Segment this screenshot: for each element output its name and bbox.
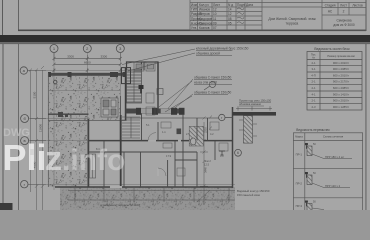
svg-text:Козлов: Козлов (199, 26, 210, 30)
svg-text:600 х 2085 h: 600 х 2085 h (333, 86, 350, 90)
small box symbol (157, 89, 163, 95)
svg-text:2: 2 (343, 10, 345, 14)
svg-text:Листов: Листов (352, 3, 363, 7)
svg-text:14: 14 (228, 8, 232, 12)
svg-text:2-1: 2-1 (311, 86, 315, 90)
sheet 1 right frame line (366, 0, 367, 31)
terrace right wall (125, 68, 127, 120)
svg-text:ПР-1: ПР-1 (296, 153, 303, 157)
svg-text:1-1: 1-1 (162, 130, 166, 134)
svg-text:900 х 2170 h: 900 х 2170 h (333, 80, 350, 84)
axis circle D (21, 181, 28, 188)
stairs arrow line (133, 71, 135, 102)
bottom note text (237, 189, 270, 197)
svg-text:терраса: терраса (286, 22, 299, 26)
svg-text:900 х 1410 h: 900 х 1410 h (333, 92, 350, 96)
svg-text:900 х 1285 h: 900 х 1285 h (333, 105, 350, 109)
interior partitions (89, 114, 216, 188)
mid-plan circle label (221, 116, 223, 120)
wall ledge line under terrace (48, 120, 127, 122)
axis circle A (20, 67, 27, 74)
svg-text:17.9: 17.9 (166, 154, 172, 158)
svg-text:10: 10 (213, 12, 217, 16)
svg-text:07: 07 (213, 26, 217, 30)
svg-text:12: 12 (213, 8, 217, 12)
svg-text:ГИП: ГИП (191, 8, 198, 12)
lintel row 2 (305, 172, 350, 188)
svg-text:дом из Ф 3000: дом из Ф 3000 (333, 23, 354, 27)
top total dimension line (53, 63, 122, 66)
dark stove box (177, 129, 182, 135)
svg-text:z: z (45, 140, 62, 178)
right wall detail label (239, 98, 272, 106)
axis grid lines horizontal (28, 70, 236, 184)
detail axis circle label (237, 151, 239, 155)
leader note 1 (122, 47, 249, 71)
svg-text:Лист: Лист (213, 3, 220, 7)
sheet 2 paper (0, 43, 370, 211)
small dark stamp mark (30, 149, 34, 155)
title block signature row texts (191, 3, 253, 30)
openings table header text (311, 53, 355, 60)
top dimension labels (67, 54, 107, 58)
svg-text:ПРР 180 х 4 шт: ПРР 180 х 4 шт (325, 155, 345, 159)
column dot at axis 1 (53, 80, 57, 84)
svg-text:6600: 6600 (84, 60, 91, 64)
terrace left edge line (47, 73, 49, 187)
small interior fixtures (146, 93, 228, 176)
svg-text:обшивка доской: обшивка доской (196, 52, 220, 56)
svg-text:5.1: 5.1 (146, 123, 150, 127)
svg-text:Смирнова: Смирнова (336, 19, 351, 23)
svg-text:Стадия: Стадия (325, 3, 336, 7)
leader note 2 (157, 76, 232, 109)
right dimension chain (197, 117, 210, 206)
svg-text:3-1: 3-1 (311, 67, 315, 71)
svg-text:Pli: Pli (3, 137, 47, 178)
lintel table title (296, 128, 330, 132)
openings table (307, 52, 362, 111)
terrace posts (48, 72, 126, 77)
main house top thick wall (126, 108, 185, 115)
axis circle C (21, 137, 29, 145)
sheet 2 right frame line (365, 44, 368, 210)
svg-text:ограждение террасы h=1100: ограждение террасы h=1100 (100, 203, 140, 207)
svg-text:900 х 2010 h: 900 х 2010 h (333, 61, 350, 65)
bottom-left dark blob (0, 203, 13, 210)
lintel row 3 (305, 201, 324, 213)
axis grid lines vertical (54, 53, 120, 190)
sheet 1 bottom frame line (18, 30, 366, 32)
svg-text:обшивка С-панел 150х50: обшивка С-панел 150х50 (194, 76, 231, 80)
bottom ground stipple strip extra grain (60, 187, 235, 210)
terrace stipple area (48, 76, 121, 120)
sheet 1 paper (0, 0, 370, 36)
openings table rows text (311, 61, 349, 109)
axis circle B (21, 115, 29, 123)
svg-text:2-1: 2-1 (311, 80, 315, 84)
valve symbol (139, 85, 144, 94)
svg-text:Сидоров: Сидоров (199, 17, 212, 21)
right wall detail: dimension line (236, 106, 272, 110)
svg-text:150 панелей хвои: 150 панелей хвои (237, 193, 260, 197)
svg-text:3300: 3300 (67, 54, 74, 58)
separator band (0, 35, 370, 43)
svg-text:Кол.уч: Кол.уч (199, 3, 209, 7)
svg-text:3300: 3300 (100, 54, 107, 58)
svg-text:11900: 11900 (39, 124, 43, 132)
left dimension chains (28, 66, 46, 210)
svg-text:Ведомость оконн блок: Ведомость оконн блок (314, 47, 350, 51)
axis circle 2 (83, 45, 91, 53)
terrace furniture (101, 98, 118, 117)
svg-text:Ведомость перемычек: Ведомость перемычек (296, 128, 330, 132)
sheet 2 paper edge line (3, 44, 4, 210)
svg-text:600 х 2010 h: 600 х 2010 h (333, 73, 350, 77)
svg-text:Дата: Дата (246, 3, 253, 7)
right wall detail: side ticks (209, 116, 257, 137)
svg-text:2-3: 2-3 (311, 105, 315, 109)
right chain labels (203, 127, 207, 173)
terrace top wall (48, 73, 126, 76)
svg-text:2.5: 2.5 (186, 132, 190, 136)
svg-text:Схема сечения: Схема сечения (323, 135, 344, 139)
upper rooms fittings column (134, 62, 155, 71)
svg-text:обшивка С-панел 150х50: обшивка С-панел 150х50 (194, 91, 231, 95)
lintel row marks (296, 153, 303, 209)
leader note 3 (165, 91, 231, 112)
title block signature squiggles (237, 8, 244, 24)
svg-text:№: № (312, 57, 315, 60)
svg-text:Смирнов: Смирнов (199, 21, 213, 25)
bottom stipple dimension lines (68, 188, 235, 202)
top dimension line (53, 53, 122, 62)
title block grid (190, 0, 366, 30)
svg-text:на ва отм +3.00: на ва отм +3.00 (194, 81, 217, 85)
bottom plan label (100, 203, 140, 207)
lintel table header text (295, 135, 343, 139)
axis circle 3 (116, 45, 124, 53)
main house walls (55, 62, 233, 188)
axis circle letters (23, 68, 27, 187)
detail axis circle (235, 149, 242, 156)
interior room labels (96, 123, 224, 166)
sheet 1 left frame line (18, 0, 19, 30)
svg-text:Размер проема мм-мм: Размер проема мм-мм (327, 54, 355, 58)
watermark Pliz.info (3, 137, 126, 178)
sheet 2 top edge line (0, 42, 370, 45)
svg-text:Подп: Подп (237, 3, 245, 7)
svg-text:ПР-2: ПР-2 (296, 182, 303, 186)
right wall detail: vertical hatched wall (244, 116, 253, 144)
axis circle numbers (53, 46, 122, 51)
door swing arcs (148, 133, 166, 176)
terrace mid step line (48, 90, 121, 92)
main stair wall (120, 115, 122, 187)
mid-plan circle (219, 114, 233, 120)
axis line B1 (126, 117, 219, 119)
right wall detail: top bar (233, 112, 277, 116)
svg-text:N д: N д (228, 3, 233, 7)
svg-text:05: 05 (228, 21, 232, 25)
stair treads (127, 72, 142, 102)
svg-text:4-1: 4-1 (311, 92, 315, 96)
svg-text:клееный деревянный брус 150х: клееный деревянный брус 150х150 (196, 47, 249, 51)
top total dimension label (84, 60, 91, 64)
svg-text:.info: .info (62, 144, 125, 177)
left dimension labels (32, 91, 42, 168)
svg-text:обшивка камнем: обшивка камнем (239, 102, 261, 106)
svg-text:2-1: 2-1 (311, 61, 315, 65)
lintel table (293, 133, 362, 211)
terrace lower wall (48, 113, 89, 115)
svg-text:2-1: 2-1 (311, 99, 315, 103)
left stipple column (48, 120, 88, 187)
watermark DWG (3, 127, 30, 139)
small ref circle (204, 82, 216, 91)
svg-text:11: 11 (213, 17, 217, 21)
axis circle 1 (50, 45, 58, 53)
terrace inner vertical line (120, 96, 122, 120)
svg-text:Лист: Лист (340, 3, 347, 7)
title block stage cells (325, 3, 363, 27)
upper small rooms walls (127, 62, 159, 90)
svg-text:900 х 2010 h: 900 х 2010 h (333, 99, 350, 103)
svg-text:Петров: Петров (199, 12, 210, 16)
svg-text:Иванов: Иванов (199, 8, 210, 12)
svg-text:4-П: 4-П (311, 73, 316, 77)
stairs block (127, 70, 142, 103)
svg-text:Утв.: Утв. (191, 26, 197, 30)
svg-text:ПР-3: ПР-3 (296, 204, 303, 208)
svg-text:4.2: 4.2 (210, 132, 214, 136)
hatched room patch (189, 126, 203, 146)
sheet 1 paper edge line (2, 0, 3, 35)
svg-text:Марка: Марка (295, 136, 303, 139)
ground strip tone overlay (60, 187, 235, 210)
svg-text:2210: 2210 (203, 127, 207, 133)
sheet 2 left frame line (17, 44, 20, 210)
svg-text:09: 09 (213, 21, 217, 25)
svg-text:пом 2: пом 2 (204, 159, 211, 163)
svg-text:ПРР 120 х 2: ПРР 120 х 2 (325, 184, 341, 188)
title block object name text (268, 17, 316, 26)
svg-text:5100: 5100 (32, 91, 36, 98)
lintel row 1 (305, 143, 352, 159)
openings table title (314, 47, 350, 51)
svg-text:900 х 2085 h: 900 х 2085 h (333, 67, 350, 71)
svg-text:12: 12 (228, 12, 232, 16)
svg-text:08: 08 (228, 17, 232, 21)
terrace corner marks (58, 112, 68, 117)
lower stair flight (122, 117, 140, 138)
svg-text:Дом Жилой. Смирновой. этаж: Дом Жилой. Смирновой. этаж (268, 17, 316, 21)
wardrobe (90, 154, 96, 178)
svg-text:3440: 3440 (203, 167, 207, 173)
bottom ground stipple strip (60, 187, 235, 210)
stair pier (122, 68, 131, 84)
svg-text:12.5: 12.5 (204, 162, 210, 166)
svg-text:АС: АС (328, 10, 333, 14)
door openings (white gaps) (110, 141, 181, 187)
svg-text:6: 6 (237, 151, 239, 155)
level mark symbol (219, 151, 225, 155)
axis A tick crosses (53, 68, 122, 72)
svg-text:Изм: Изм (191, 3, 197, 7)
